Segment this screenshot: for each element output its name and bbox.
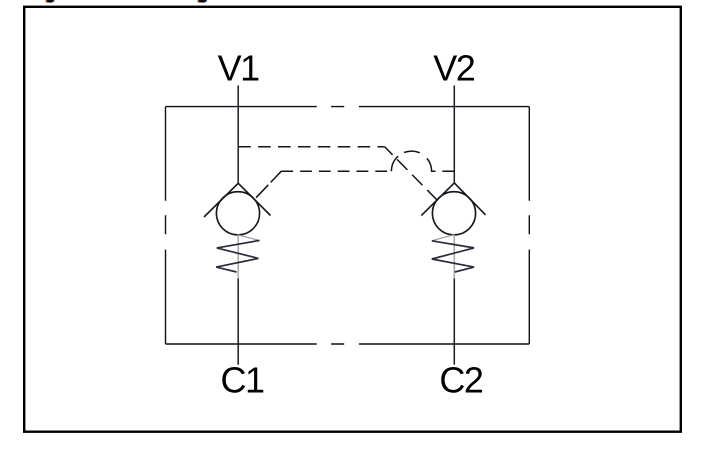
wire C1 (vertical line from spring to port C1) [237, 279, 239, 365]
valve envelope dashed box: right edge [528, 107, 530, 344]
svg-text:V1: V1 [218, 48, 260, 89]
valve envelope dashed box: left edge [165, 107, 167, 344]
wire C1 gray segment through spring [237, 235, 239, 279]
check valve CV1 seat [204, 183, 271, 217]
pilot line from wire V1 to CV2: diagonal dashed run [385, 147, 439, 202]
wire C2 gray segment through spring [453, 235, 455, 279]
pilot line from wire V2 to CV1: diagonal dashed run [255, 171, 281, 198]
check valve CV1 ball [216, 192, 259, 235]
spring CV1 [216, 240, 259, 272]
spring CV2 first coil (light) [432, 235, 454, 241]
cropped title descender mark 2 [197, 0, 207, 3]
pilot line from wire V1 to CV2: horizontal dashed run [238, 146, 385, 148]
check valve CV2 ball [432, 192, 475, 235]
pilot crossover hop arc [391, 151, 435, 171]
wire V2 (vertical line from port V2 to check valve CV2) [453, 85, 455, 182]
wire V1 (vertical line from port V1 to check valve CV1) [237, 85, 239, 183]
check valve CV2 seat [421, 183, 485, 216]
spring CV1 first coil (light) [238, 235, 260, 241]
pilot line from wire V2 to CV1: horizontal dashed run [281, 170, 391, 172]
spring CV2 [432, 241, 474, 272]
wire C2 (vertical line from spring to port C2) [453, 279, 455, 365]
valve envelope dashed box: bottom edge [166, 343, 530, 345]
pilot line from wire V2 to CV1: stub at V2 line [442, 170, 454, 172]
valve envelope dashed box: top edge [166, 106, 530, 108]
svg-text:C1: C1 [220, 359, 263, 400]
svg-text:C2: C2 [439, 359, 482, 400]
cropped title descender mark 1 [45, 0, 54, 3]
svg-text:V2: V2 [433, 48, 475, 89]
